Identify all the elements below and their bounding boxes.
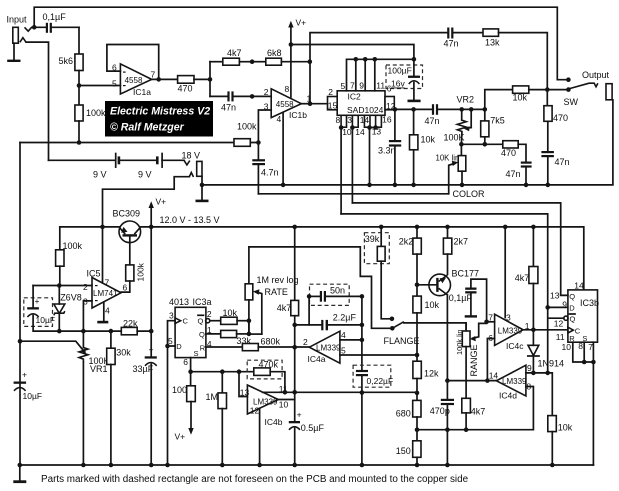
svg-text:39k: 39k	[365, 234, 380, 244]
wire IC1b pin4 to ground bus	[282, 113, 284, 185]
wire IC4c pin3 supply	[504, 227, 506, 318]
svg-text:16: 16	[382, 115, 392, 125]
svg-text:+: +	[22, 370, 27, 380]
potentiometer 1M rev log RATE	[245, 247, 298, 334]
wire ground bus main	[202, 100, 613, 185]
svg-text:15: 15	[328, 101, 338, 111]
resistor 100k S pulldown	[172, 385, 195, 442]
svg-text:R: R	[200, 343, 206, 352]
svg-text:0,22µF: 0,22µF	[367, 376, 394, 386]
wire IC4c output to IC3b clock	[523, 329, 568, 331]
svg-text:10: 10	[562, 342, 572, 352]
svg-text:10k: 10k	[223, 308, 238, 318]
node pin3 rail dot	[503, 225, 508, 230]
node RS7 dots	[582, 360, 596, 365]
node pin1 dot	[308, 101, 313, 106]
resistor 150	[396, 441, 421, 465]
svg-text:IC1b: IC1b	[289, 110, 307, 120]
svg-text:12.0 V - 13.5 V: 12.0 V - 13.5 V	[160, 215, 220, 225]
svg-text:Output: Output	[582, 70, 610, 80]
op-amp IC1b	[264, 84, 312, 124]
wire pin15 stub	[310, 103, 328, 105]
svg-text:7: 7	[350, 81, 355, 91]
node 7k5 bottom dot	[483, 142, 488, 147]
node 4k7/6k8 junction	[250, 59, 255, 64]
node bus/294 dot	[292, 390, 297, 395]
ground input jack	[7, 60, 20, 62]
node IC1b pin4 ground dot	[281, 183, 286, 188]
node 12k bus dot	[415, 391, 420, 396]
resistor 100k IC1b input	[234, 122, 257, 147]
node flange upper contact dot	[390, 317, 395, 322]
node bypass contact dot	[566, 77, 571, 82]
resistor 470 output load	[544, 90, 568, 151]
svg-text:LM339: LM339	[498, 326, 523, 335]
node S-pin row dot	[188, 369, 193, 374]
wire switched supply to regulator	[103, 177, 190, 283]
wire IC4d pin9 row	[526, 373, 552, 416]
diode Z6V8 zener	[54, 286, 82, 332]
wire bus to 12k column	[295, 392, 417, 393]
capacitor 47n output series	[425, 104, 440, 126]
capacitor 47n tone	[506, 162, 532, 185]
node pins3-5 dot	[165, 344, 170, 349]
power V+ arrow mid	[149, 197, 167, 230]
node IC4c pin7 dot	[484, 320, 489, 325]
node COLOR pot ground dot	[460, 183, 465, 188]
IC U3a 4013 flip-flop	[169, 297, 212, 358]
svg-text:Z6V8: Z6V8	[60, 293, 82, 303]
pin IC2 left stub pins 2/15	[328, 87, 338, 111]
wire pins3-5 down to bottom bus	[167, 346, 169, 465]
wire 470k row	[191, 371, 254, 373]
svg-text:RATE: RATE	[265, 287, 288, 297]
svg-text:12: 12	[554, 318, 564, 328]
resistor 6k8	[252, 48, 310, 65]
op-amp IC5 LM741	[83, 269, 128, 316]
resistor 7k5	[481, 109, 505, 144]
node 2.2uF left dot	[292, 323, 297, 328]
node 4k7 pullup rail dot	[531, 225, 536, 230]
node pin5/12k dot	[415, 353, 420, 358]
svg-text:IC4b: IC4b	[265, 417, 283, 427]
svg-text:4.7n: 4.7n	[261, 168, 279, 178]
svg-text:14: 14	[360, 115, 370, 125]
svg-text:10K lin: 10K lin	[436, 154, 460, 163]
node switch lower contact dot	[566, 87, 571, 92]
wire IC4d pin8 loop	[417, 387, 533, 430]
wire pot node vertical	[248, 321, 250, 334]
svg-text:LM741: LM741	[93, 289, 118, 298]
node 10k ground dot	[411, 183, 416, 188]
svg-text:6: 6	[123, 283, 128, 293]
potentiometer VR1 100K	[20, 331, 110, 465]
svg-text:5k6: 5k6	[59, 56, 74, 66]
wire VR2 row	[461, 143, 502, 145]
wire IC4b pin11 row	[263, 391, 295, 393]
svg-text:12k: 12k	[424, 368, 439, 378]
node 470k/pin11 dot	[283, 390, 288, 395]
node VR2 bottom junction	[459, 142, 464, 147]
svg-text:1M: 1M	[206, 392, 219, 402]
node IC1a output dot	[156, 77, 161, 82]
svg-text:Input: Input	[7, 15, 28, 25]
resistor 13k feedback	[483, 29, 547, 90]
svg-text:C: C	[575, 326, 581, 335]
pin labels IC2 top 5 7 9 11	[341, 81, 386, 91]
svg-text:+: +	[35, 296, 40, 306]
svg-text:3.3n: 3.3n	[378, 146, 396, 156]
node ground bus jack dot	[200, 183, 205, 188]
svg-text:IC1a: IC1a	[133, 87, 151, 97]
wire IC3b pin D stub	[548, 306, 568, 308]
svg-text:4: 4	[277, 114, 282, 124]
resistor 5k6	[59, 27, 84, 85]
svg-text:S: S	[194, 349, 199, 358]
svg-text:47n: 47n	[221, 103, 236, 113]
svg-text:Parts marked with dashed recta: Parts marked with dashed rectangle are n…	[41, 474, 469, 485]
node IC4a out dot	[292, 345, 297, 350]
svg-text:8: 8	[336, 115, 341, 125]
svg-text:FLANGE: FLANGE	[384, 336, 420, 346]
resistor 30k	[107, 331, 132, 465]
capacitor 0,22uF on copper side	[353, 365, 393, 465]
wire left column vertical	[19, 143, 21, 466]
wire SAD1024 output row	[394, 108, 485, 110]
node input dot	[32, 25, 37, 30]
svg-text:9 V: 9 V	[138, 170, 152, 180]
svg-text:11: 11	[376, 81, 385, 91]
resistor 470 tone	[501, 141, 526, 162]
node output/4k7 dot	[531, 328, 536, 333]
resistor 2k2	[399, 227, 422, 296]
wire bottom ground bus	[20, 464, 594, 466]
svg-text:IC3b: IC3b	[580, 298, 599, 308]
node V+ top junction	[289, 42, 294, 47]
capacitor 47n series	[210, 91, 271, 112]
wire IC1b pin3	[258, 110, 271, 143]
resistor 39k on copper side	[364, 227, 392, 319]
IC U3b 4013 second half	[568, 290, 599, 343]
pin IC3b Qbar bubble and stub	[549, 316, 568, 320]
svg-text:8: 8	[526, 381, 531, 391]
capacitor 0,1uF IC4c	[449, 279, 487, 322]
node 50n right dot	[360, 294, 365, 299]
wire IC3a S pin down	[190, 358, 192, 386]
svg-text:4558: 4558	[276, 100, 294, 109]
svg-text:4: 4	[341, 330, 346, 340]
node 0.22uF bus dot	[360, 390, 365, 395]
wire IC1b output pin1	[301, 103, 310, 105]
capacitor 100uF 16v electrolytic	[386, 59, 423, 102]
wire IC1b pin8 supply	[290, 45, 292, 98]
svg-text:9: 9	[527, 363, 532, 373]
svg-text:6k8: 6k8	[267, 48, 282, 58]
wire IC1a pin6 feedback loop	[107, 45, 159, 80]
capacitor 47n output shunt	[541, 151, 569, 185]
capacitor 3.3n	[378, 109, 401, 184]
resistor 10k output	[485, 86, 569, 110]
connector J1 input jack	[13, 27, 18, 59]
svg-text:5: 5	[341, 345, 346, 355]
svg-text:2: 2	[207, 309, 212, 319]
capacitor 0,1uF input	[34, 12, 79, 33]
node pin6/pin14 dot	[485, 378, 490, 383]
ground DC jack ground symbol	[196, 185, 209, 202]
wire IC2 pin13 to ground bus	[370, 128, 376, 185]
node Q/pot wiper dot	[247, 332, 252, 337]
svg-text:D: D	[569, 304, 575, 313]
svg-text:4k7: 4k7	[227, 48, 242, 58]
node 10k top dot	[411, 107, 416, 112]
svg-text:LM339: LM339	[316, 343, 341, 352]
transistor Q2 BC177	[417, 268, 479, 380]
node 3.3n top dot	[393, 107, 398, 112]
node 4k7 bottom dot	[464, 427, 469, 432]
svg-text:10k: 10k	[421, 135, 436, 145]
svg-text:Q: Q	[199, 330, 205, 339]
svg-text:4: 4	[105, 306, 110, 316]
switch DC jack tip contact	[184, 160, 190, 165]
wire IC3b pin13 Q to bus A	[561, 294, 568, 296]
svg-text:2: 2	[264, 87, 269, 97]
IC U2 SAD1024 body	[337, 91, 385, 116]
svg-text:Q: Q	[569, 292, 575, 301]
svg-text:C: C	[183, 316, 189, 325]
capacitor 10uF bottom left	[14, 370, 42, 401]
connector J3 DC jack	[197, 161, 202, 185]
node pin2/zener dot	[57, 283, 62, 288]
node bus B / pin D dot	[545, 305, 550, 310]
svg-text:3: 3	[169, 311, 174, 321]
node 30k top dot	[109, 329, 114, 334]
resistor 680k reset row	[206, 337, 309, 351]
switch SW output	[564, 83, 598, 107]
wire IC2 top supply comb	[347, 59, 414, 91]
node 3.3n ground dot	[393, 183, 398, 188]
svg-text:13: 13	[550, 291, 560, 301]
svg-text:0.5µF: 0.5µF	[301, 423, 325, 433]
capacitor 33uF	[133, 344, 157, 465]
battery B2 9V	[120, 154, 184, 180]
svg-text:VR2: VR2	[457, 94, 475, 104]
capacitor 4.7n	[252, 143, 278, 194]
node rail/pin7 crossing dot	[100, 225, 105, 230]
svg-text:470: 470	[501, 148, 516, 158]
node comb dots	[354, 57, 417, 62]
node VR1 wiper dot	[18, 339, 23, 344]
node 100k bottom junction	[77, 140, 82, 145]
svg-text:8: 8	[285, 84, 290, 94]
svg-text:SAD1024: SAD1024	[347, 105, 384, 115]
node diode/pinD dot	[531, 371, 536, 376]
svg-text:LM339: LM339	[502, 377, 527, 386]
op-amp IC1a	[112, 63, 156, 97]
pin labels IC3b	[550, 281, 593, 352]
svg-text:47n: 47n	[506, 169, 521, 179]
pin IC2 right stub pins 6/12	[385, 84, 396, 111]
svg-text:14: 14	[574, 281, 584, 291]
node 1M top dot	[220, 369, 225, 374]
node 2.2uF right dot	[360, 323, 365, 328]
svg-text:V+: V+	[175, 432, 186, 442]
svg-text:3: 3	[506, 313, 511, 323]
op-amp IC4d LM339	[489, 363, 532, 400]
resistor 33k from Q	[206, 330, 252, 345]
svg-text:SW: SW	[564, 97, 579, 107]
resistor 4k7 range bottom	[462, 398, 486, 429]
switch input jack tip contact	[25, 27, 35, 31]
svg-text:10k: 10k	[425, 300, 440, 310]
resistor 4k7 pullup	[515, 227, 538, 330]
svg-text:0,1µF: 0,1µF	[449, 293, 473, 303]
wire RATE top to flange switch	[249, 247, 392, 328]
wire bus B from IC2 pin10	[341, 214, 548, 373]
wire IC5 pin2	[33, 285, 92, 287]
node 5k6/100k junction	[77, 83, 82, 88]
svg-text:Q: Q	[198, 317, 204, 326]
svg-text:9 V: 9 V	[93, 170, 107, 180]
svg-text:100k: 100k	[63, 241, 83, 251]
svg-text:+: +	[149, 344, 154, 354]
node pin4 cap dot	[360, 338, 365, 343]
resistor 1M	[206, 372, 227, 465]
op-amp IC4c LM339	[488, 312, 529, 350]
wire IC5 pin4 to ground	[97, 303, 108, 324]
node 47n output ground dot	[546, 183, 551, 188]
svg-text:100µF: 100µF	[388, 66, 412, 76]
node 7k5 top dot	[483, 107, 488, 112]
node 680/pin8 wire dot	[415, 427, 420, 432]
svg-text:14: 14	[489, 371, 499, 381]
svg-text:2k2: 2k2	[399, 236, 414, 246]
wire IC2 pin14 to bus A	[351, 128, 353, 203]
node IC2 bottom pin dots	[339, 125, 378, 187]
node 50n left dot	[307, 294, 312, 299]
potentiometer 100k lin RANGE	[455, 323, 487, 398]
wire emitter row to IC4d pin14	[447, 380, 496, 382]
switch DC jack switch contact	[189, 173, 193, 178]
svg-text:4013: 4013	[169, 297, 189, 307]
capacitor 0.5uF	[289, 392, 325, 465]
svg-text:IC3a: IC3a	[193, 297, 212, 307]
connector J2 output jack	[606, 84, 612, 100]
switch input jack ring contact	[20, 38, 26, 43]
svg-text:9: 9	[359, 81, 364, 91]
svg-text:BC309: BC309	[113, 209, 141, 219]
node 2k7 rail dot	[445, 225, 450, 230]
svg-text:8: 8	[578, 341, 583, 351]
potentiometer VR2 100K	[444, 94, 475, 144]
svg-text:18 V: 18 V	[182, 151, 201, 161]
svg-text:2k7: 2k7	[454, 236, 469, 246]
pin labels IC3a	[168, 309, 212, 367]
pin labels IC2 bottom 8 3 14 16 10 14 13	[336, 115, 392, 137]
svg-text:7: 7	[588, 342, 593, 352]
resistor 680	[396, 400, 421, 440]
ground bottom bus ground symbol	[13, 465, 26, 483]
svg-text:100k: 100k	[237, 122, 257, 132]
resistor 4k7 feedback	[210, 48, 252, 65]
node Qbar/pot dot	[247, 318, 252, 323]
capacitor 47n feedback top	[444, 28, 484, 49]
node 2k2 rail dot	[415, 225, 420, 230]
svg-text:2: 2	[83, 282, 88, 292]
svg-text:4k7: 4k7	[515, 273, 530, 283]
svg-text:VR1: VR1	[90, 364, 108, 374]
wire COLOR line	[258, 193, 448, 195]
svg-text:COLOR: COLOR	[453, 189, 486, 199]
svg-text:IC4a: IC4a	[308, 354, 326, 364]
wire V+ to SAD1024 supply	[291, 45, 414, 60]
svg-text:1N914: 1N914	[538, 358, 565, 368]
diode D1 1N914	[528, 330, 564, 373]
wire IC4a pin5 row	[340, 354, 417, 356]
resistor 10k to ground	[410, 109, 436, 184]
svg-text:4558: 4558	[125, 76, 143, 85]
wire V+ rail 12.0-13.5V	[60, 227, 584, 290]
svg-text:47n: 47n	[444, 39, 459, 49]
wire IC5 pin3	[83, 301, 92, 331]
svg-text:100k: 100k	[136, 262, 146, 281]
resistor 2k7	[443, 227, 468, 274]
svg-text:150: 150	[396, 446, 411, 456]
wire IC1a output	[152, 78, 178, 80]
wire top rail from input to output bypass	[34, 7, 568, 80]
svg-text:RANGE: RANGE	[469, 344, 479, 376]
wire IC4c pin6	[487, 339, 494, 381]
resistor 100k input bias	[75, 86, 106, 143]
svg-text:30k: 30k	[116, 348, 131, 358]
wire long y=142.5 to left column and to 100k feedback	[20, 142, 258, 144]
svg-text:470: 470	[553, 113, 568, 123]
node 22k/V+ dot	[149, 329, 154, 334]
svg-text:4k7: 4k7	[471, 406, 486, 416]
svg-text:2: 2	[328, 87, 333, 97]
svg-text:IC5: IC5	[87, 269, 101, 279]
resistor 4k7 integrator feed	[277, 227, 299, 392]
node 47n/vert junction	[250, 94, 255, 99]
resistor 12k	[413, 361, 439, 400]
resistor 10k ramp	[548, 416, 573, 465]
svg-text:V+: V+	[156, 197, 167, 207]
resistor 470 after IC1a	[178, 76, 211, 94]
svg-text:2: 2	[303, 337, 308, 347]
svg-text:4k7: 4k7	[277, 303, 292, 313]
title box Electric Mistress V2	[105, 101, 213, 137]
svg-text:9: 9	[562, 300, 567, 310]
svg-text:7: 7	[488, 312, 493, 322]
node 100k/4.7n junction	[256, 140, 261, 145]
svg-text:680: 680	[396, 409, 411, 419]
node pin13 top dot	[237, 369, 242, 374]
resistor 470k on copper side	[247, 359, 285, 392]
wire IC4b pin12 to bottom bus	[259, 408, 261, 465]
svg-text:IC2: IC2	[348, 92, 362, 102]
svg-text:5: 5	[112, 78, 117, 88]
svg-text:47n: 47n	[555, 157, 570, 167]
svg-text:© Ralf Metzger: © Ralf Metzger	[110, 122, 185, 134]
svg-text:7: 7	[151, 69, 156, 79]
node BC177 collector dot	[445, 378, 450, 383]
svg-text:3: 3	[347, 115, 352, 125]
wire IC1b feedback riser	[310, 33, 448, 104]
svg-text:10µF: 10µF	[23, 391, 43, 401]
pin IC3a Qbar bubble	[206, 319, 210, 323]
svg-text:0,1µF: 0,1µF	[43, 12, 67, 22]
wire bus A from IC2 pin14	[352, 203, 568, 295]
resistor 22k	[121, 318, 151, 335]
